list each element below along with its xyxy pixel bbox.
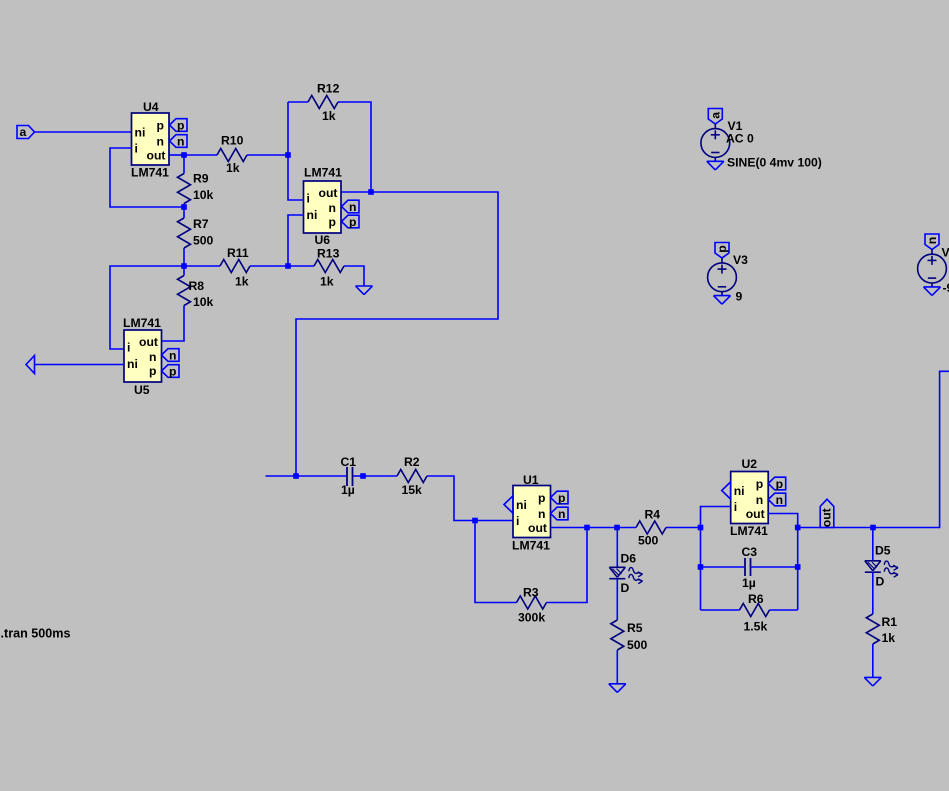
svg-text:R9: R9 — [193, 172, 209, 186]
wire R8 to U5 out — [162, 306, 185, 342]
svg-text:R6: R6 — [748, 592, 764, 606]
wire node C to R13 — [288, 265, 314, 267]
wire node to R2 — [363, 475, 397, 477]
svg-text:out: out — [819, 508, 833, 527]
svg-text:i: i — [734, 500, 737, 514]
svg-text:out: out — [147, 149, 166, 163]
resistor R4 — [636, 521, 666, 534]
svg-text:LM741: LM741 — [123, 316, 161, 330]
svg-text:p: p — [149, 364, 156, 378]
wire R2 to U1 i node — [427, 476, 475, 521]
wire U2 out node to D5 node — [798, 527, 873, 529]
svg-text:p: p — [558, 491, 565, 505]
wire node E to R8 — [183, 266, 185, 276]
svg-text:U6: U6 — [315, 233, 331, 247]
svg-text:1µ: 1µ — [341, 483, 355, 497]
svg-text:p: p — [177, 119, 184, 133]
wire R7 to node E — [183, 248, 185, 266]
net flag n at U6 — [342, 200, 360, 213]
ni arrow at U2 — [722, 482, 731, 499]
svg-text:R7: R7 — [193, 217, 209, 231]
resistor R10 — [217, 149, 247, 162]
svg-text:a: a — [20, 125, 27, 139]
svg-text:ni: ni — [734, 484, 745, 498]
svg-text:-9: -9 — [943, 281, 949, 295]
svg-text:p: p — [157, 119, 164, 133]
voltage source V1 with net flag a and ground — [708, 109, 722, 125]
svg-text:LM741: LM741 — [131, 166, 169, 180]
net flag p at U1 — [551, 491, 569, 504]
svg-text:500: 500 — [627, 638, 648, 652]
resistor R2 — [397, 470, 427, 483]
wire to U2 i — [701, 507, 731, 528]
net flag n at U1 — [551, 507, 569, 520]
wire to C3 left plate — [701, 566, 745, 568]
svg-text:ni: ni — [135, 126, 146, 140]
svg-text:R5: R5 — [627, 621, 643, 635]
svg-text:C1: C1 — [341, 455, 357, 469]
wire U6 ni to node C — [288, 215, 304, 266]
svg-text:R12: R12 — [317, 82, 340, 96]
junction node E — [181, 263, 187, 269]
wire R12 left lead — [288, 101, 308, 103]
wire U5 i feedback — [110, 266, 184, 349]
svg-text:i: i — [307, 192, 310, 206]
svg-text:p: p — [329, 215, 336, 229]
svg-text:p: p — [349, 215, 356, 229]
svg-text:D6: D6 — [621, 552, 637, 566]
junction node B — [285, 152, 291, 158]
svg-text:p: p — [538, 491, 545, 505]
svg-text:C3: C3 — [742, 545, 758, 559]
svg-text:R10: R10 — [221, 134, 244, 148]
ground at R5 — [609, 683, 626, 685]
wire C3 right plate to node — [752, 566, 798, 568]
svg-text:U2: U2 — [742, 457, 758, 471]
wire node B to U6 i — [288, 102, 304, 200]
wire R11 to node C — [250, 265, 288, 267]
ground at R13 — [356, 285, 373, 287]
wire R5 to ground — [616, 650, 618, 684]
junction R3 node — [584, 525, 590, 531]
junction U2 i node — [698, 525, 704, 531]
voltage source V2 with net flag n and ground — [925, 234, 939, 250]
wire a to U4 ni — [35, 131, 132, 133]
junction C1 right node — [360, 473, 366, 479]
port arrow at U5 ni — [26, 356, 35, 374]
resistor R12 — [308, 96, 338, 109]
wire R4 to U2 i node — [666, 527, 701, 529]
op-amp U4 — [132, 113, 170, 165]
svg-text:1k: 1k — [322, 109, 336, 123]
resistor R5 — [611, 620, 624, 650]
op-amp U2 — [731, 472, 769, 524]
svg-text:ni: ni — [516, 498, 527, 512]
svg-text:500: 500 — [638, 534, 659, 548]
wire R6 left lead — [701, 609, 740, 611]
wire D5 to R1 — [872, 572, 874, 614]
net flag n at U4 — [170, 135, 188, 148]
svg-text:n: n — [329, 201, 336, 215]
svg-text:U1: U1 — [523, 473, 539, 487]
wire to C1 left plate — [296, 475, 346, 477]
op-amp U6 — [304, 181, 342, 233]
junction C1 left node — [293, 473, 299, 479]
wire D6 to R5 — [616, 579, 618, 620]
svg-text:LM741: LM741 — [512, 539, 550, 553]
junction C3 left — [698, 564, 704, 570]
svg-text:R11: R11 — [227, 246, 249, 260]
junction node C — [285, 263, 291, 269]
svg-text:out: out — [139, 335, 158, 349]
svg-text:ni: ni — [127, 357, 138, 371]
svg-text:n: n — [177, 135, 184, 149]
wire R1 to ground — [872, 644, 874, 677]
net flag n at U2 — [768, 493, 786, 506]
junction U2 out node — [795, 525, 801, 531]
svg-text:AC 0: AC 0 — [726, 132, 754, 146]
svg-text:15k: 15k — [402, 483, 423, 497]
svg-text:1.5k: 1.5k — [744, 620, 768, 634]
svg-text:300k: 300k — [518, 611, 545, 625]
svg-text:p: p — [776, 477, 783, 491]
net flag p at U5 — [162, 365, 180, 378]
wire U4 out to node — [170, 154, 185, 156]
svg-text:LM741: LM741 — [304, 166, 342, 180]
wire R9 to node D — [183, 204, 185, 208]
ni arrow at U1 — [504, 496, 513, 513]
wire C3 left vertical — [700, 528, 702, 611]
svg-text:a: a — [709, 112, 723, 119]
svg-text:V2: V2 — [942, 246, 949, 260]
svg-text:R3: R3 — [523, 586, 539, 600]
net flag out — [820, 499, 834, 527]
svg-text:n: n — [558, 507, 565, 521]
svg-text:n: n — [538, 507, 545, 521]
svg-text:D: D — [876, 575, 885, 589]
wire C3 right vertical — [797, 528, 799, 611]
LED D6 — [609, 566, 625, 568]
svg-text:LM741: LM741 — [730, 524, 768, 538]
wire U6 out to C1 node (long feedback) — [296, 192, 498, 476]
svg-text:1k: 1k — [235, 275, 249, 289]
ground at R1 — [864, 676, 881, 678]
svg-text:p: p — [715, 245, 729, 252]
svg-text:out: out — [319, 186, 338, 200]
svg-text:i: i — [127, 341, 130, 355]
wire to D6 node — [587, 527, 617, 529]
svg-text:SINE(0 4mv 100): SINE(0 4mv 100) — [727, 156, 822, 170]
wire U5 ni to port — [35, 364, 125, 366]
svg-text:9: 9 — [736, 290, 743, 304]
resistor R7 — [178, 218, 191, 248]
wire stub left of C1 — [266, 475, 297, 477]
capacitor C1 — [346, 467, 348, 486]
wire R3 loop left — [475, 521, 517, 603]
op-amp U1 — [513, 486, 551, 538]
junction U4 out — [181, 152, 187, 158]
resistor R1 — [866, 614, 879, 644]
svg-text:p: p — [169, 365, 176, 379]
svg-text:R1: R1 — [882, 615, 898, 629]
svg-text:10k: 10k — [193, 188, 214, 202]
wire C1 right plate to node — [354, 475, 364, 477]
svg-text:n: n — [776, 493, 783, 507]
net flag n at U5 — [162, 349, 180, 362]
junction C3 right — [795, 564, 801, 570]
resistor R13 — [314, 260, 344, 273]
wire R3 loop right — [547, 528, 588, 603]
svg-text:ni: ni — [307, 208, 318, 222]
resistor R9 — [178, 174, 191, 204]
wire node E to R11 — [184, 265, 220, 267]
svg-text:V3: V3 — [733, 253, 748, 267]
svg-text:out: out — [746, 507, 765, 521]
svg-text:500: 500 — [193, 234, 214, 248]
svg-text:10k: 10k — [193, 295, 214, 309]
svg-text:n: n — [157, 135, 164, 149]
svg-text:D5: D5 — [875, 544, 891, 558]
svg-text:n: n — [169, 349, 176, 363]
svg-text:R2: R2 — [404, 455, 420, 469]
svg-text:1µ: 1µ — [742, 576, 756, 590]
junction node D — [181, 204, 187, 210]
svg-text:R13: R13 — [317, 247, 340, 261]
wire to LED D5 — [872, 528, 874, 561]
junction D6 node — [614, 525, 620, 531]
wire U2 out — [768, 514, 798, 528]
wire node to R10 — [184, 154, 217, 156]
wire R12 to U6 out node — [338, 102, 371, 192]
svg-text:R8: R8 — [189, 279, 205, 293]
svg-text:U4: U4 — [143, 100, 159, 114]
svg-text:n: n — [925, 237, 939, 244]
svg-text:p: p — [756, 477, 763, 491]
wire node D to R7 — [183, 207, 185, 218]
wire U1 out — [551, 527, 588, 529]
wire D6 node to R4 — [617, 527, 636, 529]
LED D5 — [865, 560, 881, 562]
resistor R3 — [517, 596, 547, 609]
net flag p at U6 — [342, 215, 360, 228]
svg-text:n: n — [349, 200, 356, 214]
wire R13 to ground — [344, 266, 364, 286]
wire node to R9 — [183, 155, 185, 174]
wire U4 i feedback — [110, 148, 184, 207]
wire U6 out — [342, 191, 372, 193]
junction U1 i node — [472, 518, 478, 524]
wire D5 node to right edge — [873, 371, 949, 527]
svg-text:1k: 1k — [882, 631, 896, 645]
net flag p at U4 — [170, 119, 188, 132]
svg-text:out: out — [528, 521, 547, 535]
resistor R6 — [740, 604, 770, 617]
net flag p at U2 — [768, 477, 786, 490]
svg-text:1k: 1k — [320, 275, 334, 289]
wire to LED D6 — [616, 528, 618, 568]
svg-text:n: n — [149, 350, 156, 364]
svg-text:i: i — [135, 142, 138, 156]
junction D5 node — [870, 525, 876, 531]
svg-text:R4: R4 — [645, 508, 661, 522]
op-amp U5 — [124, 330, 162, 382]
wire R6 right lead — [770, 609, 798, 611]
junction U6 out node — [368, 189, 374, 195]
capacitor C3 — [744, 558, 746, 576]
voltage source V3 with net flag p and ground — [715, 243, 729, 259]
svg-text:i: i — [516, 514, 519, 528]
resistor R11 — [220, 260, 250, 273]
wire R10 to node B — [247, 154, 288, 156]
svg-text:n: n — [756, 493, 763, 507]
port flag a (input) — [17, 126, 35, 139]
svg-text:1k: 1k — [226, 161, 240, 175]
svg-text:.tran 500ms: .tran 500ms — [1, 626, 71, 640]
svg-text:U5: U5 — [134, 383, 150, 397]
svg-text:D: D — [621, 581, 630, 595]
wire to U1 i — [475, 520, 513, 522]
resistor R8 — [178, 276, 191, 306]
